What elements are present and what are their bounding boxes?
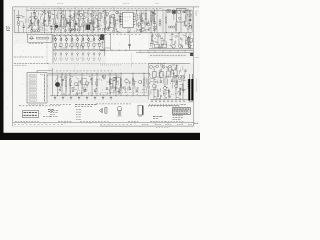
wire (115, 73, 117, 78)
transistor Q12 (178, 44, 181, 47)
capacitor C5 (66, 21, 68, 23)
ground (62, 97, 64, 99)
wire bus upper (53, 48, 105, 50)
wire bundle IF stage (104, 10, 121, 31)
wire (33, 10, 35, 12)
wire bank left vertical (52, 34, 54, 63)
pin 9 (133, 21, 135, 23)
revision strip text (80, 120, 82, 122)
wire long bus A (100, 49, 193, 51)
capacitor C18 (98, 43, 100, 46)
resistor R41 (115, 78, 116, 85)
wire (97, 10, 99, 20)
wire (119, 14, 121, 16)
resistor R32 (179, 88, 180, 95)
pin 5 (121, 23, 123, 25)
coil L7 (168, 26, 170, 28)
wire (30, 15, 32, 20)
resistor R33 (182, 84, 183, 91)
note right of scale (181, 103, 183, 105)
wire (60, 10, 62, 20)
coil L1 (17, 21, 19, 23)
resistor R10 (83, 20, 84, 27)
wire (153, 68, 155, 71)
wire (65, 10, 67, 20)
pin (43, 88, 46, 91)
resistor R1 (31, 20, 32, 26)
pin 3 (121, 18, 123, 20)
antenna symbol (41, 11, 47, 17)
ferrite antenna box (28, 34, 53, 42)
revision strip text (156, 126, 158, 128)
wire (178, 33, 180, 44)
ground (78, 97, 80, 99)
node A (13, 9, 16, 12)
label (40, 73, 42, 75)
capacitor C27 (129, 87, 131, 89)
wire (129, 46, 131, 51)
wire bundle RF stage (28, 11, 58, 31)
wire bank top rail (53, 34, 105, 36)
wire (160, 68, 162, 72)
wire (60, 46, 62, 49)
resistor R38 (91, 78, 92, 85)
capacitor C14 (76, 43, 78, 46)
wire (185, 33, 187, 44)
bus drop (139, 50, 141, 52)
ground (110, 97, 112, 99)
capacitor C28 (136, 89, 138, 91)
transistor Q4 (80, 13, 83, 16)
contact row (70, 58, 72, 60)
wire (18, 10, 20, 21)
capacitor C24 (84, 89, 86, 91)
transistor Q24 (125, 79, 129, 83)
wire (189, 33, 191, 49)
margin note right (195, 10, 197, 12)
resistor R23 (175, 24, 176, 30)
switch S2f (82, 53, 84, 55)
wire (78, 10, 80, 20)
revision strip ticks (25, 122, 182, 124)
capacitor C10 (54, 43, 56, 46)
switch S1g lever (87, 35, 89, 39)
label row (56, 70, 58, 72)
wire (48, 14, 50, 16)
section boundary dashed (47, 63, 132, 65)
resistor R17 (119, 16, 120, 22)
resistor R6 (65, 20, 66, 27)
section boundary dashed (131, 54, 133, 68)
capacitor C6 (75, 22, 77, 24)
stamp note (48, 109, 51, 111)
wire (120, 73, 122, 79)
section boundary dashed (112, 8, 114, 34)
section boundary dashed (26, 8, 28, 36)
pin (43, 85, 46, 88)
output transformer T5 primary winding (188, 80, 189, 89)
bus tick (111, 49, 113, 51)
wire (92, 10, 94, 20)
wire (175, 76, 177, 85)
coil L2 (31, 30, 33, 32)
switch S1c contact (66, 39, 68, 41)
wire bundle below IC (104, 28, 149, 33)
electrolytic capacitor C29 (55, 25, 58, 28)
note dashes row (50, 104, 52, 106)
wire (109, 15, 111, 17)
wire (54, 10, 56, 18)
handwritten margin note (6, 26, 10, 31)
wire (191, 74, 193, 79)
junctions lower rails (57, 73, 144, 96)
resistor R24 (154, 44, 159, 47)
pin (43, 99, 46, 102)
pin (43, 78, 46, 81)
resistor R20 (145, 13, 146, 20)
pin (43, 92, 46, 95)
connector pin rail (43, 74, 45, 103)
resistor R14 (104, 18, 105, 25)
transistor Q11 (172, 45, 176, 49)
transistor Q17 (152, 84, 155, 87)
capacitor C26 (106, 87, 108, 89)
transistor Q2 (48, 11, 51, 14)
IC outline drawing (138, 106, 143, 116)
switch S2b (60, 53, 62, 55)
wire (136, 10, 138, 14)
title block line (173, 111, 191, 113)
wire (88, 40, 90, 43)
switch S1a lever (54, 35, 56, 39)
wire (195, 78, 197, 92)
output transformer T5 core bar (188, 79, 190, 101)
coil L3 (70, 28, 72, 30)
pin 2 (121, 16, 123, 18)
resistor R13 (97, 20, 98, 27)
switch S1b contact (60, 39, 62, 41)
label (178, 75, 180, 77)
contact row (92, 58, 94, 60)
wire (182, 76, 184, 84)
wire (154, 10, 156, 22)
header note above frame (155, 3, 157, 5)
wire (173, 14, 175, 20)
switch S2c (66, 53, 68, 55)
label row below band (56, 33, 58, 35)
resistor R30 (157, 90, 158, 97)
label row above band (60, 7, 62, 9)
switch S1d lever (70, 35, 72, 39)
wire (174, 68, 176, 70)
capacitor C31 (183, 11, 185, 13)
winding (180, 10, 182, 22)
bus drop (169, 50, 171, 52)
resistor R43 (132, 78, 133, 85)
section boundary dashed (75, 8, 77, 34)
contact row (81, 58, 83, 60)
wire long bus B (136, 52, 193, 54)
wire (145, 10, 147, 13)
capacitor C4 (50, 26, 52, 28)
wire (60, 40, 62, 43)
wire (149, 48, 193, 50)
resistor R16 (114, 18, 115, 25)
junctions top rails (27, 10, 189, 33)
capacitor C9 (153, 21, 155, 23)
ground (70, 97, 72, 99)
capacitor C11 (60, 43, 62, 46)
wire (113, 14, 115, 18)
switch S1f lever (81, 35, 83, 39)
wire (104, 10, 106, 18)
coil L5 (end of bank) (100, 34, 104, 39)
capacitor C7 (89, 21, 91, 23)
wire (150, 10, 152, 15)
capacitor C33 (190, 39, 193, 43)
note dashes row (19, 105, 21, 107)
wire (99, 46, 101, 49)
ground (102, 97, 104, 99)
resistor R15 (109, 17, 110, 23)
switch S1h contact (93, 39, 95, 41)
transistor Q27 (189, 25, 192, 28)
wire (99, 40, 101, 43)
switch S2g (88, 53, 90, 55)
terminal 2 (29, 78, 37, 80)
section boundary dashed (100, 64, 122, 66)
section boundary dashed (58, 8, 60, 34)
pin 8 (133, 18, 135, 20)
contact row (76, 58, 78, 60)
section boundary dashed (100, 92, 148, 94)
note dashes row (96, 103, 98, 105)
wire (69, 73, 71, 79)
resistor R35 (65, 80, 66, 87)
resistor R21 (150, 15, 151, 22)
wire (44, 10, 46, 20)
switch S1b lever (59, 35, 61, 39)
resistor R27 (160, 72, 163, 78)
ground (70, 30, 73, 32)
note dashes row dark (75, 104, 77, 106)
wire rail bottom (50, 95, 148, 97)
bus drop (147, 50, 149, 52)
IC U1 (123, 12, 134, 27)
switch S1i contact (99, 39, 101, 41)
wire (49, 25, 52, 27)
pin 10 (133, 23, 135, 25)
wire (188, 74, 190, 79)
wire (171, 33, 173, 44)
resistor R22 (165, 17, 166, 23)
capacitor C2 (33, 12, 35, 14)
wire (96, 73, 98, 79)
resistor R39 (96, 79, 97, 86)
note line 3 (14, 64, 16, 66)
revision strip text (14, 124, 16, 126)
wire (180, 22, 182, 33)
wire (66, 46, 68, 49)
wire (55, 46, 57, 49)
resistor R42 (120, 79, 121, 86)
terminal 6 (29, 92, 37, 94)
contact row (59, 58, 61, 60)
wire (36, 70, 38, 72)
pin (43, 95, 46, 98)
terminal 4 (29, 85, 37, 87)
resistor R29 (174, 70, 177, 76)
label (29, 43, 31, 45)
wire (143, 73, 145, 79)
terminal 1 (29, 74, 37, 76)
wire (175, 22, 177, 24)
switch S1i lever (98, 35, 100, 39)
wire rail (149, 63, 191, 65)
note line 1 (14, 56, 16, 58)
wire (93, 46, 95, 49)
capacitor C13 (71, 43, 73, 46)
subtitle text (173, 119, 175, 121)
resistor R37 (81, 78, 82, 85)
transistor Q3 (62, 15, 65, 18)
resistor R40 (109, 78, 110, 85)
switch S1g contact (88, 39, 90, 41)
capacitor C23 (72, 89, 74, 91)
wire (162, 9, 164, 33)
pin 4 (121, 21, 123, 23)
transistor Q13 (150, 65, 153, 68)
pin 6 (133, 13, 135, 15)
resistor R22b (189, 11, 190, 17)
revision strip text (142, 123, 144, 125)
contact row (54, 58, 56, 60)
wire bundle mixer stages (59, 11, 104, 32)
wire (164, 78, 166, 87)
ferrite rod (37, 37, 49, 39)
transistor Q18 (163, 86, 166, 89)
transistor Q1 (34, 16, 37, 19)
revision strip text (58, 120, 60, 122)
bus drop (154, 50, 156, 52)
wire (129, 35, 131, 48)
capacitor C1 (23, 25, 25, 27)
capacitor C15 (82, 43, 84, 46)
label below connector (28, 104, 30, 106)
transistor Q21 (74, 82, 78, 86)
wire right vertical (191, 10, 193, 32)
capacitor C8 (108, 26, 110, 28)
transistor outline drawing (118, 106, 122, 110)
wire (109, 73, 111, 78)
wire (69, 10, 71, 20)
title text (173, 108, 175, 110)
coil L6 (159, 20, 161, 22)
wire bundle osc right (184, 10, 193, 31)
bus drop (177, 50, 179, 52)
switch S2a (55, 53, 57, 55)
revision strip text (165, 120, 167, 122)
transistor Q15 (162, 66, 165, 69)
switch S1f contact (82, 39, 84, 41)
parts list column (50, 110, 52, 112)
wire (57, 75, 59, 82)
header note above frame (123, 3, 125, 5)
capacitor C21 (171, 79, 173, 81)
crystal X1 (178, 11, 180, 14)
title block frame (173, 108, 191, 115)
ground (94, 97, 96, 99)
resistor R36 (69, 79, 70, 86)
wire (188, 36, 190, 49)
resistor R2 (38, 20, 39, 26)
bus label (150, 54, 152, 56)
wire (82, 40, 84, 43)
resistor R12 (92, 20, 93, 27)
output transformer T5 core bar (191, 79, 193, 101)
resistor R25 (162, 44, 167, 47)
revision strip text (100, 124, 102, 126)
connector X1 body (27, 73, 47, 103)
transistor Q28 (188, 45, 191, 48)
wire (77, 40, 79, 43)
wire (91, 73, 93, 78)
revision strip text (150, 120, 152, 122)
IF transformer T2 (shield can) (86, 25, 90, 30)
wire (153, 78, 155, 85)
capacitor C19 (128, 43, 131, 45)
electrolytic capacitor C22 (55, 82, 59, 86)
wire bundle right mid section (150, 34, 192, 48)
stamp text (24, 112, 26, 114)
contact row (98, 58, 100, 60)
margin note (195, 57, 197, 59)
terminal 8 (29, 99, 37, 101)
switch S1c lever (65, 35, 67, 39)
switch S1a contact (55, 39, 57, 41)
wire top band bottom rail (14, 32, 192, 34)
switch S1h lever (92, 35, 94, 39)
trimmer capacitor C3 (44, 20, 46, 22)
wire (189, 9, 191, 12)
wire (71, 40, 73, 43)
note dashes (132, 62, 134, 64)
wire bundle input stage (17, 17, 26, 28)
transistor Q20 (178, 77, 181, 80)
transistor Q6 (105, 12, 108, 15)
wire rail (48, 72, 150, 74)
revision strip text (128, 120, 130, 122)
label row above band left (30, 7, 32, 9)
bus drop (162, 50, 164, 52)
resistor R3 (48, 16, 49, 22)
bus tick (104, 49, 106, 51)
wire (65, 73, 67, 80)
capacitor outline drawing (105, 108, 107, 114)
doc number (153, 116, 156, 118)
ground (86, 97, 88, 99)
coil L4 (30, 37, 33, 40)
resistor R31 (168, 90, 169, 97)
wire (132, 73, 134, 78)
stamp box (23, 111, 39, 118)
switch S1d contact (71, 39, 73, 41)
ferrite bead FB1 (190, 53, 193, 56)
wire left vertical feed (13, 10, 15, 32)
pin (43, 74, 46, 77)
resistor R34 (61, 79, 62, 86)
wire top supply rail (27, 9, 192, 11)
